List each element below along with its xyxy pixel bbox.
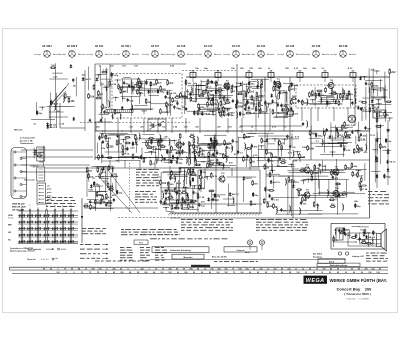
resistor R304 [208, 163, 214, 165]
resistor R245 [146, 141, 148, 147]
resistor R1 [109, 80, 117, 86]
svg-text:bnt kpl: bnt kpl [196, 53, 203, 56]
terminal strip [37, 183, 46, 204]
wire [246, 86, 262, 88]
junction node [282, 139, 288, 143]
wire [93, 207, 114, 209]
diode D374 [329, 135, 332, 139]
resistor R482 [267, 202, 274, 208]
svg-text:C 34: C 34 [103, 69, 108, 72]
svg-text:100k: 100k [361, 184, 367, 187]
wire [368, 68, 370, 93]
svg-text:80: 80 [209, 272, 211, 274]
svg-text:5n: 5n [266, 167, 269, 170]
resistor R518 [269, 172, 271, 178]
wire [160, 172, 162, 203]
resistor R91 [224, 83, 231, 89]
resistor R329 [279, 140, 286, 146]
label switch legend [27, 248, 66, 251]
capacitor C164 [297, 99, 304, 104]
wire [106, 169, 108, 185]
electrolytic C463 [214, 193, 221, 198]
wire [267, 143, 275, 145]
svg-text:an Tonband 6V: an Tonband 6V [20, 138, 35, 140]
wire [139, 86, 141, 104]
capacitor C364 [302, 122, 304, 126]
resistor R530 [314, 164, 321, 170]
wire vertical link [154, 160, 156, 170]
resistor R214 [50, 100, 52, 106]
svg-text:87-100: 87-100 [8, 217, 14, 219]
wire [212, 194, 226, 196]
resistor R449 [160, 179, 167, 185]
wire [257, 160, 287, 162]
resistor R278 [192, 150, 198, 153]
label left bottom [10, 247, 36, 253]
capacitor C272 [176, 160, 183, 165]
wire [318, 100, 335, 102]
wire [42, 146, 44, 167]
diode D152 [278, 90, 288, 94]
resistor R526 [352, 171, 359, 177]
wire [250, 113, 269, 115]
wire [154, 148, 156, 161]
wire [119, 155, 140, 157]
svg-text:100: 100 [245, 269, 248, 271]
coil L276 [186, 156, 187, 164]
wire [359, 233, 361, 243]
capacitor C323 [246, 154, 254, 159]
label note [302, 147, 308, 149]
wire [194, 145, 196, 161]
wire [245, 135, 254, 137]
junction node [268, 130, 269, 131]
svg-text:Baustein: Baustein [184, 256, 194, 259]
junction node [95, 74, 101, 78]
label note [236, 83, 241, 85]
wire vertical link [269, 108, 271, 131]
resistor R348 [341, 124, 348, 130]
svg-text:90: 90 [176, 269, 178, 271]
wire [210, 162, 221, 164]
electrolytic C380 [384, 174, 392, 179]
wire [249, 96, 264, 98]
resistor R51 [150, 81, 157, 87]
wire [326, 142, 344, 144]
label box dial scale [317, 263, 360, 267]
capacitor C89 [198, 107, 200, 111]
wire [314, 93, 316, 107]
wire [162, 172, 181, 174]
resistor R167 [309, 92, 315, 98]
dial scale numbers [43, 268, 381, 271]
coil L375 [375, 155, 376, 163]
svg-text:10n: 10n [188, 83, 192, 85]
wire vertical link [283, 108, 285, 131]
resistor R182 [384, 111, 390, 117]
svg-text:R 12: R 12 [124, 153, 129, 155]
wire [101, 82, 103, 120]
wire [188, 85, 206, 87]
wire [389, 73, 391, 99]
label tastensatz [24, 179, 35, 182]
electrolytic C464 [252, 192, 259, 197]
junction node [234, 86, 240, 90]
diode D217 [70, 64, 73, 68]
svg-text:100: 100 [364, 269, 367, 271]
resistor R340 [266, 149, 273, 155]
svg-text:Ansicht: Ansicht [349, 53, 356, 56]
wire vertical link [333, 107, 335, 121]
svg-text:6: 6 [127, 269, 128, 271]
wire [273, 176, 275, 189]
wire [320, 92, 322, 101]
note voltage column 2 [135, 192, 157, 203]
svg-text:98: 98 [353, 272, 355, 274]
resistor R438 [167, 195, 173, 198]
svg-text:80: 80 [105, 272, 107, 274]
label row top left [99, 66, 175, 68]
resistor R4 [96, 96, 102, 99]
resistor R241 [122, 150, 130, 156]
wire [110, 186, 112, 211]
capacitor C501 [271, 197, 279, 202]
svg-text:160: 160 [376, 272, 379, 274]
wire vertical link [139, 160, 141, 170]
transistor T4 [327, 79, 334, 89]
label switch legend 2 [27, 258, 54, 261]
wire [326, 96, 334, 98]
resistor R26 [180, 92, 187, 98]
wire vertical link [301, 107, 303, 121]
electrolytic C268 [182, 149, 189, 154]
note mid rows [95, 260, 258, 263]
wire [97, 143, 99, 154]
capacitor C303 [212, 152, 214, 156]
svg-text:6,8k: 6,8k [375, 107, 380, 110]
svg-text:11: 11 [316, 269, 318, 271]
label row above rail [195, 67, 353, 70]
junction node [177, 157, 178, 158]
wire [86, 171, 88, 197]
wire [121, 78, 138, 80]
wire [256, 98, 258, 109]
wire [308, 213, 358, 215]
wire link row2 [21, 156, 93, 158]
resistor R53 [185, 79, 192, 85]
resistor R409 [108, 187, 114, 190]
wire [320, 153, 344, 155]
resistor R174 [302, 100, 309, 106]
output transformer Tr1 [335, 228, 345, 240]
resistor R521 [302, 196, 308, 202]
transistor pinout T1 AF 106 I [35, 44, 61, 57]
label note [370, 135, 375, 137]
wire [117, 156, 140, 158]
label note [113, 173, 117, 175]
svg-text:LW: LW [8, 232, 11, 234]
wire [273, 86, 282, 88]
electrolytic C143 [274, 80, 282, 85]
resistor R352 [357, 148, 363, 151]
wire [203, 149, 218, 151]
wire [287, 182, 289, 215]
label note [201, 200, 205, 203]
resistor R97 [219, 94, 226, 100]
resistor R6 [102, 69, 109, 73]
note voltage column [136, 170, 159, 186]
transistor T3 [274, 79, 281, 88]
wire vertical link [361, 107, 363, 121]
resistor R57 [218, 108, 225, 114]
svg-text:Ansicht: Ansicht [78, 53, 85, 56]
wire [371, 170, 381, 172]
junction node [196, 89, 202, 93]
resistor R72 [216, 81, 223, 87]
svg-text:60: 60 [337, 269, 339, 271]
wire [345, 180, 347, 198]
wire [197, 103, 217, 105]
resistor R118 [246, 111, 252, 114]
wire horizontal link [240, 125, 302, 127]
ground bus chassis [168, 213, 262, 215]
coil L277 [197, 136, 198, 144]
transistor pinout T12 AD 148 [331, 44, 357, 57]
coil L291 [190, 158, 191, 166]
junction node [376, 103, 382, 107]
junction node [288, 164, 294, 168]
junction node [272, 138, 278, 142]
junction node [226, 130, 227, 131]
wire [380, 124, 382, 164]
electrolytic C552 [36, 110, 43, 115]
wire [99, 133, 127, 135]
capacitor C49 [176, 101, 178, 105]
wire [146, 79, 168, 81]
resistor R366 [324, 131, 326, 137]
junction node [163, 130, 164, 131]
wire [246, 150, 248, 167]
diode D350 [351, 130, 354, 134]
wire vertical link [249, 160, 251, 170]
resistor R190 [369, 107, 376, 113]
transistor T10 [332, 188, 340, 197]
label note [170, 191, 175, 193]
capacitor C318 [251, 144, 258, 149]
svg-text:140: 140 [140, 268, 143, 271]
svg-text:AC 117: AC 117 [204, 44, 213, 48]
wire +9V rail [186, 76, 390, 78]
wire [193, 149, 195, 167]
capacitor C2 [89, 119, 91, 123]
wire [367, 233, 369, 247]
resistor R457 [200, 174, 208, 180]
svg-text:AC 116: AC 116 [177, 44, 186, 48]
wire [276, 96, 278, 118]
label note [157, 176, 161, 179]
wire [179, 166, 202, 168]
wire [144, 152, 156, 154]
wire [123, 77, 131, 79]
wire [190, 168, 192, 177]
wire left vertical [94, 64, 96, 160]
svg-text:Fi1: Fi1 [192, 71, 195, 73]
wire [115, 175, 117, 192]
wire [317, 168, 319, 188]
wire [134, 89, 172, 91]
wire horizontal link [160, 167, 260, 169]
resistor R384 [380, 143, 387, 149]
wire [349, 231, 351, 239]
label note [387, 130, 391, 132]
wire horizontal link [84, 207, 158, 209]
svg-text:Ansicht: Ansicht [267, 53, 274, 56]
resistor R84 [223, 111, 230, 117]
label note [253, 154, 258, 157]
wire [105, 151, 124, 153]
dashed link line [118, 217, 180, 219]
wire [223, 198, 234, 200]
resistor R116 [260, 108, 267, 114]
wire [321, 161, 323, 172]
wire [302, 179, 349, 181]
resistor R161 [325, 87, 327, 93]
svg-text:90: 90 [50, 269, 52, 271]
svg-text:96: 96 [201, 272, 203, 274]
coil L306 [232, 145, 233, 153]
diode D529 [292, 184, 295, 188]
wire [362, 97, 384, 99]
junction node [103, 87, 109, 91]
coil L131 [257, 79, 258, 87]
wire vertical link [299, 157, 301, 162]
wire [327, 137, 351, 139]
wire [242, 81, 244, 92]
phone jack Bu5 [259, 240, 264, 250]
svg-text:Anschl. f. TA: Anschl. f. TA [20, 139, 33, 142]
diode D382 [386, 160, 396, 164]
resistor R52 [114, 109, 121, 115]
junction node [138, 93, 144, 97]
capacitor C79 [211, 80, 219, 85]
wire [365, 80, 382, 82]
wire [106, 68, 108, 104]
resistor R354 [345, 135, 351, 138]
svg-text:100µ: 100µ [184, 199, 190, 201]
wire [313, 192, 366, 194]
wire [130, 80, 132, 88]
coil L492 [276, 206, 277, 214]
resistor R273 [147, 145, 153, 148]
resistor R315 [243, 156, 250, 162]
svg-text:80: 80 [337, 272, 339, 274]
diode D266 [170, 159, 173, 163]
resistor R358 [344, 121, 351, 127]
resistor R212 [50, 65, 56, 68]
electrolytic C239 [99, 135, 101, 140]
note paragraph 2 [256, 220, 308, 231]
wire [277, 138, 279, 153]
transistor T5 [175, 140, 182, 149]
resistor R253 [160, 146, 166, 148]
resistor R247 [148, 138, 154, 140]
resistor R92 [351, 237, 357, 239]
wire [384, 85, 386, 122]
svg-text:90: 90 [193, 272, 195, 274]
wire [46, 106, 70, 108]
svg-text:60: 60 [309, 269, 311, 271]
svg-text:Fi5: Fi5 [299, 71, 302, 73]
svg-text:bnt kpl: bnt kpl [87, 53, 94, 56]
coil L14 [166, 105, 167, 113]
wire [274, 81, 276, 97]
resistor R514 [351, 162, 358, 168]
resistor R506 [359, 182, 367, 188]
capacitor C297 [226, 146, 234, 151]
wire [305, 197, 346, 199]
wire [328, 143, 348, 145]
wire [201, 143, 232, 145]
coil L490 [343, 203, 344, 211]
svg-text:4: 4 [22, 208, 23, 210]
label note [186, 91, 190, 93]
wire [197, 143, 218, 145]
diode D194 [371, 99, 374, 103]
resistor R342 [337, 132, 343, 138]
logo plate [304, 276, 328, 284]
dashed net line [182, 70, 236, 72]
wire [330, 123, 332, 138]
wire [314, 87, 316, 95]
resistor R69 [211, 99, 218, 105]
wire [160, 187, 186, 189]
junction node [102, 130, 103, 131]
resistor R513 [298, 191, 305, 197]
electrolytic C171 [327, 100, 334, 105]
wire [197, 84, 199, 96]
resistor R466 [211, 172, 218, 178]
wire [50, 93, 52, 128]
label note [346, 131, 349, 133]
resistor R56 [220, 100, 227, 106]
label note [88, 190, 94, 192]
svg-text:70: 70 [162, 269, 164, 271]
svg-text:100: 100 [210, 269, 213, 271]
svg-text:OA 70: OA 70 [204, 113, 211, 116]
svg-text:rot: rot [47, 184, 50, 187]
svg-text:7: 7 [148, 269, 149, 271]
resistor R353 [357, 144, 363, 150]
resistor R487 [360, 185, 368, 191]
capacitor C263 [176, 157, 183, 162]
label note [73, 86, 77, 88]
wire vertical link [227, 118, 229, 133]
wire [188, 145, 190, 159]
diode D432 [192, 168, 195, 172]
svg-text:Ansicht: Ansicht [296, 53, 303, 56]
resistor R547 [36, 153, 42, 156]
tuning gang C1 [148, 119, 166, 131]
wire output box top [293, 159, 370, 161]
wire above band [150, 259, 346, 261]
svg-text:10n: 10n [354, 175, 358, 177]
wire [364, 163, 366, 181]
svg-text:160: 160 [240, 272, 243, 274]
wire [276, 93, 278, 99]
label note [112, 194, 116, 197]
capacitor C319 [237, 150, 244, 155]
resistor R129 [245, 92, 247, 98]
